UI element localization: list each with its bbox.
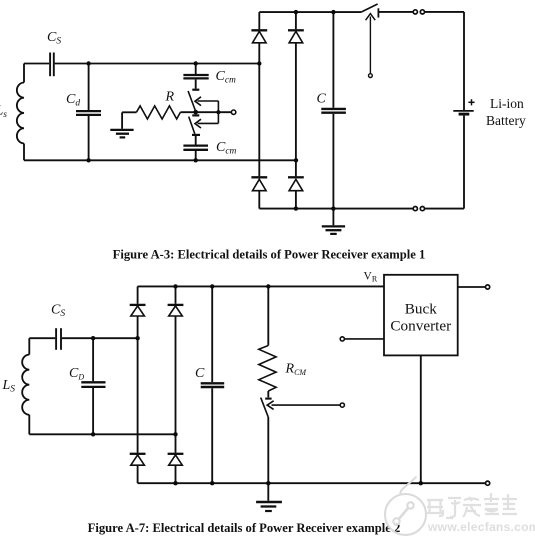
svg-text:CD: CD xyxy=(69,366,84,382)
svg-text:Battery: Battery xyxy=(486,113,526,128)
svg-text:Ccm: Ccm xyxy=(216,69,237,86)
svg-text:Li-ion: Li-ion xyxy=(490,96,524,111)
svg-text:C: C xyxy=(317,92,327,107)
svg-text:www.elecfans.com: www.elecfans.com xyxy=(427,520,535,534)
svg-text:Converter: Converter xyxy=(390,317,451,334)
svg-text:Ls: Ls xyxy=(0,104,7,121)
svg-text:Figure A-3: Electrical details: Figure A-3: Electrical details of Power … xyxy=(113,248,426,262)
svg-text:Cd: Cd xyxy=(66,92,80,109)
svg-text:R: R xyxy=(165,90,175,105)
svg-text:CS: CS xyxy=(51,303,65,320)
svg-text:RCM: RCM xyxy=(285,362,308,378)
svg-text:Ccm: Ccm xyxy=(216,140,237,157)
svg-text:LS: LS xyxy=(2,378,16,395)
svg-text:CS: CS xyxy=(47,30,61,47)
svg-text:Figure A-7: Electrical details: Figure A-7: Electrical details of Power … xyxy=(88,521,401,535)
svg-text:VR: VR xyxy=(364,271,378,284)
svg-text:Buck: Buck xyxy=(405,301,437,318)
svg-text:C: C xyxy=(195,366,205,381)
